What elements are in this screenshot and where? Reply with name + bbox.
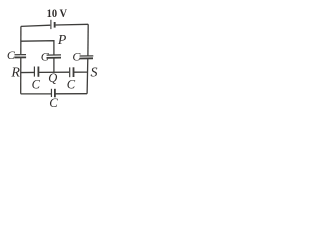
capacitor C (bottom) left plate bbox=[50, 89, 52, 97]
svg-text:C: C bbox=[41, 50, 50, 64]
svg-text:10 V: 10 V bbox=[47, 6, 68, 20]
wire top edge right segment bbox=[56, 23, 89, 26]
capacitor C (left edge) top plate bbox=[15, 54, 27, 56]
capacitor C (Q-S) right plate bbox=[73, 67, 75, 77]
capacitor C (right edge) bottom plate bbox=[80, 57, 94, 59]
capacitor C (bottom) right plate bbox=[54, 89, 56, 98]
wire bottom edge right segment bbox=[56, 93, 88, 95]
wire right edge lower bbox=[86, 59, 89, 94]
battery V1 short thick plate bbox=[54, 22, 56, 28]
wire middle branch lower bbox=[53, 58, 55, 72]
wire bottom edge left segment bbox=[21, 93, 51, 95]
wire RQ-cap to Q to QS-cap bbox=[39, 71, 69, 73]
wire inner P-line horizontal bbox=[21, 41, 54, 55]
svg-text:S: S bbox=[91, 65, 98, 80]
svg-text:C: C bbox=[7, 48, 16, 62]
wire QS-cap to S bbox=[74, 71, 88, 73]
svg-text:C: C bbox=[67, 78, 76, 92]
capacitor C (P-Q middle) bottom plate bbox=[47, 57, 62, 59]
wire left edge upper bbox=[20, 26, 22, 54]
wire right edge upper bbox=[87, 24, 89, 55]
capacitor C (right edge) top plate bbox=[80, 55, 94, 57]
wire R to RQ-cap bbox=[21, 71, 34, 73]
capacitor C (P-Q middle) top plate bbox=[47, 54, 61, 56]
capacitor C (Q-S) left plate bbox=[69, 67, 71, 77]
svg-text:C: C bbox=[32, 77, 41, 91]
capacitor C (left edge) bottom plate bbox=[14, 56, 26, 58]
svg-text:R: R bbox=[10, 66, 20, 81]
svg-text:C: C bbox=[72, 50, 81, 64]
svg-text:Q: Q bbox=[48, 71, 57, 85]
capacitor C (R-Q) right plate bbox=[37, 67, 39, 77]
wire left edge lower bbox=[20, 58, 22, 94]
svg-text:C: C bbox=[49, 96, 58, 110]
battery V1 long plate bbox=[50, 20, 52, 29]
svg-text:P: P bbox=[57, 32, 67, 47]
capacitor C (R-Q) left plate bbox=[33, 67, 35, 77]
wire top edge left segment bbox=[21, 25, 50, 26]
